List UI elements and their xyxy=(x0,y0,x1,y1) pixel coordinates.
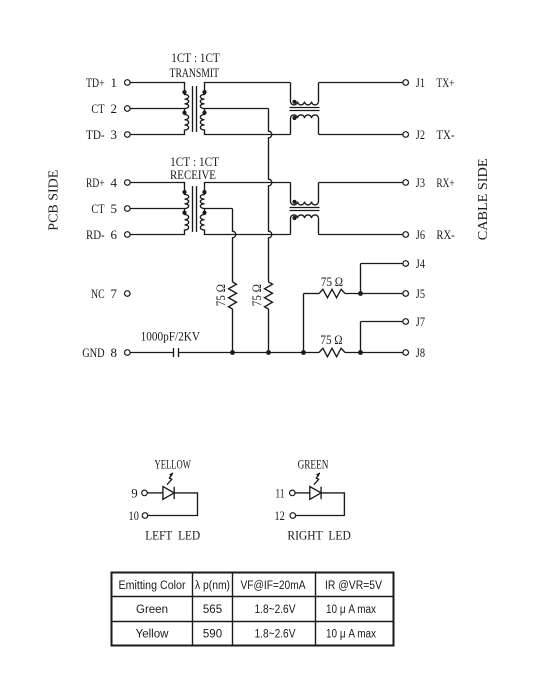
svg-text:Emitting Color: Emitting Color xyxy=(119,580,186,592)
svg-text:CT: CT xyxy=(91,101,104,116)
svg-text:590: 590 xyxy=(203,629,222,641)
svg-text:VF@IF=20mA: VF@IF=20mA xyxy=(241,580,306,592)
svg-text:TX-: TX- xyxy=(436,127,454,142)
svg-text:Yellow: Yellow xyxy=(136,629,170,641)
svg-text:RECEIVE: RECEIVE xyxy=(170,167,216,182)
svg-text:GREEN: GREEN xyxy=(298,456,329,471)
svg-text:J2: J2 xyxy=(416,127,425,142)
svg-text:IR @VR=5V: IR @VR=5V xyxy=(325,580,382,592)
svg-text:5: 5 xyxy=(110,201,117,216)
svg-text:TD+: TD+ xyxy=(86,75,105,90)
svg-text:565: 565 xyxy=(203,604,222,616)
svg-text:J4: J4 xyxy=(416,256,426,271)
svg-text:4: 4 xyxy=(110,175,117,190)
svg-text:TD-: TD- xyxy=(86,127,105,142)
svg-text:Green: Green xyxy=(136,604,168,616)
svg-text:11: 11 xyxy=(275,485,284,500)
svg-text:1.8~2.6V: 1.8~2.6V xyxy=(255,629,296,641)
svg-text:J8: J8 xyxy=(416,345,425,360)
svg-text:TX+: TX+ xyxy=(436,75,454,90)
svg-text:10 μ A max: 10 μ A max xyxy=(326,629,376,641)
svg-text:75 Ω: 75 Ω xyxy=(321,274,343,289)
svg-text:10 μ A max: 10 μ A max xyxy=(326,604,376,616)
svg-text:LEFT LED: LEFT LED xyxy=(145,528,200,543)
svg-text:CABLE SIDE: CABLE SIDE xyxy=(476,158,491,240)
svg-text:9: 9 xyxy=(131,485,138,500)
svg-text:1000pF/2KV: 1000pF/2KV xyxy=(141,329,201,344)
svg-text:J3: J3 xyxy=(416,175,425,190)
svg-text:75 Ω: 75 Ω xyxy=(213,284,228,306)
svg-text:1.8~2.6V: 1.8~2.6V xyxy=(255,604,296,616)
svg-text:10: 10 xyxy=(129,508,139,523)
svg-text:NC: NC xyxy=(91,286,105,301)
svg-text:7: 7 xyxy=(110,286,117,301)
svg-text:RIGHT LED: RIGHT LED xyxy=(287,528,350,543)
svg-text:3: 3 xyxy=(110,127,117,142)
svg-text:1: 1 xyxy=(110,75,117,90)
svg-text:75 Ω: 75 Ω xyxy=(249,284,264,306)
svg-text:1CT : 1CT: 1CT : 1CT xyxy=(171,50,220,65)
svg-text:RD+: RD+ xyxy=(86,175,105,190)
svg-text:6: 6 xyxy=(110,227,117,242)
svg-text:J1: J1 xyxy=(416,75,425,90)
svg-text:2: 2 xyxy=(110,101,117,116)
svg-text:YELLOW: YELLOW xyxy=(155,456,192,471)
svg-text:λ p(nm): λ p(nm) xyxy=(195,580,230,592)
svg-text:J6: J6 xyxy=(416,227,426,242)
svg-text:12: 12 xyxy=(274,508,284,523)
svg-text:GND: GND xyxy=(82,345,104,360)
svg-text:8: 8 xyxy=(110,345,117,360)
svg-text:PCB SIDE: PCB SIDE xyxy=(47,170,62,231)
svg-text:TRANSMIT: TRANSMIT xyxy=(170,65,220,80)
svg-text:RX-: RX- xyxy=(436,227,454,242)
svg-text:RD-: RD- xyxy=(86,227,105,242)
svg-text:75 Ω: 75 Ω xyxy=(320,332,342,347)
svg-text:J5: J5 xyxy=(416,286,425,301)
svg-text:RX+: RX+ xyxy=(436,175,454,190)
svg-text:J7: J7 xyxy=(416,314,426,329)
svg-text:CT: CT xyxy=(91,201,104,216)
